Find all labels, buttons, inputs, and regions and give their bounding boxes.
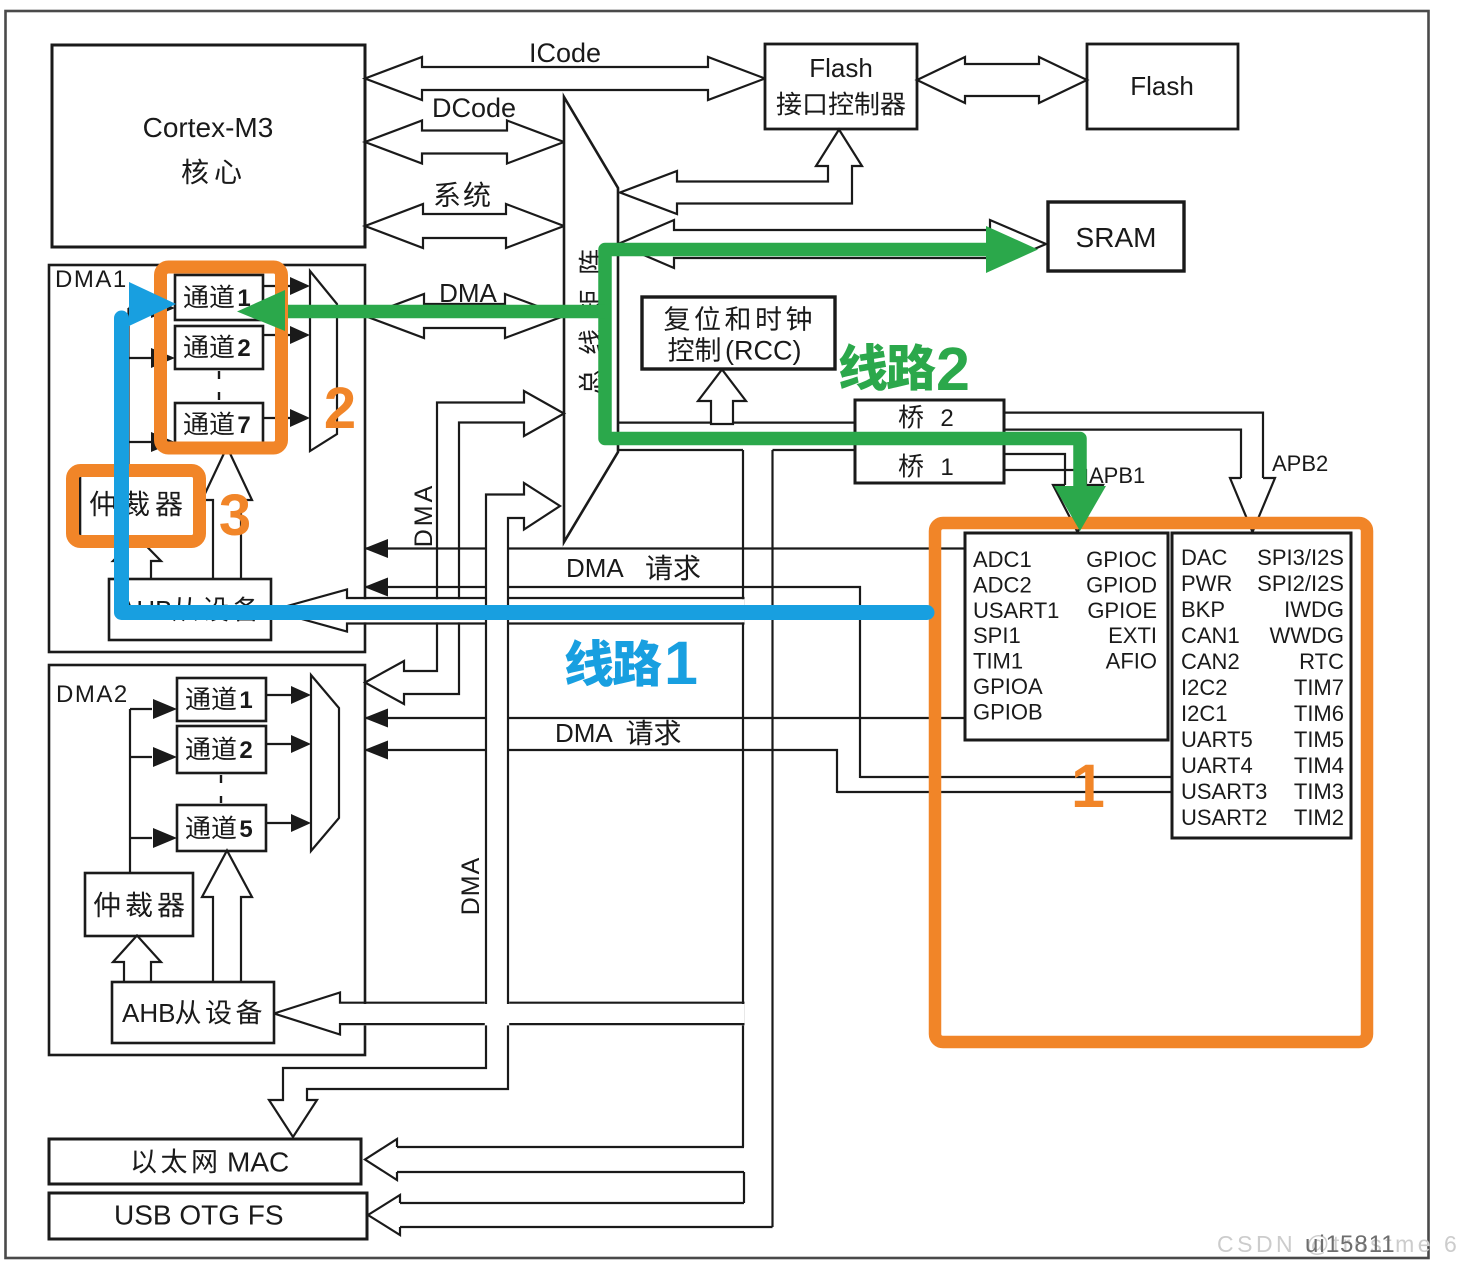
wire DMA bus arrow DMA1-busmatrix: [365, 294, 564, 338]
DMA2 block box: [49, 665, 365, 1055]
DMA1 arbiter box 仲裁器: [80, 472, 196, 537]
wire busmatrix to SRAM arrow: [618, 220, 1046, 268]
APB2 peripherals box: [1172, 533, 1351, 838]
label DMA vertical lower: [457, 857, 485, 916]
svg-text:TIM7: TIM7: [1294, 675, 1344, 700]
AHB channel to DMA2 AHB slave crossing shaft: [342, 1004, 744, 1025]
svg-text:GPIOC: GPIOC: [1086, 547, 1157, 572]
DMA request line 1 to DMA1: [365, 547, 965, 549]
SRAM box: [1048, 202, 1184, 271]
Ethernet MAC box: [49, 1139, 361, 1184]
blue label 线路1: [565, 639, 613, 687]
svg-text:DMA: DMA: [566, 553, 624, 583]
svg-text:SPI1: SPI1: [973, 623, 1021, 648]
wire system bus arrow: [365, 204, 564, 248]
wire bridge2 to APB2 lines: [1004, 412, 1264, 414]
svg-text:GPIOD: GPIOD: [1086, 572, 1157, 597]
bus matrix trapezoid: [564, 97, 618, 542]
label 系统: [435, 182, 459, 207]
svg-text:BKP: BKP: [1181, 597, 1225, 622]
svg-text:DMA: DMA: [439, 278, 497, 308]
svg-text:7: 7: [237, 412, 250, 439]
svg-text:Flash: Flash: [1130, 71, 1194, 101]
DMA2 master bus shaft to busmatrix: [365, 391, 564, 704]
svg-text:GPIOA: GPIOA: [973, 674, 1043, 699]
svg-text:MAC: MAC: [227, 1147, 289, 1178]
svg-text:I2C1: I2C1: [1181, 701, 1227, 726]
wire busmatrix to flash controller L-path: [620, 130, 862, 215]
DMA2 channel to mux arrows: [266, 694, 293, 696]
wire ICode bus arrow: [365, 57, 765, 100]
wire hollow arrow into Ethernet MAC: [397, 1146, 744, 1148]
green label 线路2: [839, 343, 887, 391]
svg-text:TIM3: TIM3: [1294, 779, 1344, 804]
orange highlight box 3 arbiter: [73, 471, 200, 542]
wire Flash controller to Flash arrow: [917, 57, 1087, 103]
svg-text:UART5: UART5: [1181, 727, 1253, 752]
DMA1 mux trapezoid: [310, 271, 337, 451]
svg-text:SRAM: SRAM: [1076, 222, 1157, 253]
svg-text:USART2: USART2: [1181, 805, 1267, 830]
svg-text:2: 2: [237, 335, 250, 362]
svg-text:DMA2: DMA2: [56, 681, 129, 708]
DMA2 channel feed lines and arrows: [129, 709, 131, 873]
wire AHB bus line to bridge1 (left of channel): [618, 449, 743, 451]
DMA2 arbiter box 仲裁器: [85, 873, 193, 936]
DMA1 AHB slave box: [109, 579, 271, 640]
svg-text:CAN2: CAN2: [1181, 649, 1240, 674]
svg-text:DMA: DMA: [410, 483, 438, 548]
Flash memory box: [1087, 44, 1238, 129]
svg-text:1: 1: [239, 687, 252, 714]
DMA2 arbiter up arrow: [113, 936, 161, 984]
svg-text:Cortex-M3: Cortex-M3: [143, 112, 274, 143]
svg-text:2: 2: [936, 335, 970, 403]
DMA2 mux trapezoid: [311, 675, 339, 851]
Cortex-M3 core box: [52, 45, 365, 247]
DMA2 channel2 box 通道2: [177, 726, 266, 773]
svg-text:DCode: DCode: [432, 93, 516, 123]
dashed line channels DMA2: [220, 775, 222, 803]
svg-text:2: 2: [940, 405, 953, 432]
svg-text:UART4: UART4: [1181, 753, 1253, 778]
svg-text:ADC1: ADC1: [973, 547, 1032, 572]
svg-text:PWR: PWR: [1181, 571, 1232, 596]
svg-text:TIM2: TIM2: [1294, 805, 1344, 830]
svg-text:1: 1: [940, 454, 953, 481]
svg-text:TIM5: TIM5: [1294, 727, 1344, 752]
svg-text:APB2: APB2: [1272, 451, 1328, 476]
svg-text:3: 3: [219, 483, 251, 548]
svg-text:1: 1: [664, 629, 698, 697]
svg-text:2: 2: [324, 376, 356, 441]
DMA2 channel5 up arrow from AHB: [202, 851, 252, 984]
svg-text:SPI3/I2S: SPI3/I2S: [1257, 545, 1344, 570]
svg-text:ui15811: ui15811: [1305, 1231, 1396, 1258]
svg-text:TIM1: TIM1: [973, 649, 1023, 674]
svg-text:GPIOE: GPIOE: [1087, 598, 1157, 623]
DMA1 arbiter up arrow: [113, 537, 161, 581]
svg-text:USART1: USART1: [973, 598, 1059, 623]
DMA2 channel1 box 通道1: [177, 678, 266, 721]
svg-text:2: 2: [239, 737, 252, 764]
DMA2 AHB slave box: [112, 982, 274, 1043]
svg-text:1: 1: [1071, 752, 1105, 820]
svg-text:DMA1: DMA1: [55, 266, 128, 293]
svg-text:TIM4: TIM4: [1294, 753, 1344, 778]
wire bridge1 to APB1 lines: [1004, 453, 1066, 455]
APB1 peripherals box: [965, 533, 1168, 740]
orange highlight box 2 channels: [161, 267, 282, 448]
svg-text:USART3: USART3: [1181, 779, 1267, 804]
DMA1 channel7 box 通道7: [175, 403, 263, 446]
DMA1 channel to mux arrows: [263, 285, 292, 287]
AHB system bus vertical channel: [742, 450, 744, 1147]
svg-text:SPI2/I2S: SPI2/I2S: [1257, 571, 1344, 596]
svg-text:DAC: DAC: [1181, 545, 1228, 570]
AHB bus shaft to busmatrix and ethernet: [269, 483, 560, 1137]
svg-text:WWDG: WWDG: [1269, 623, 1344, 648]
APB1 down arrowhead: [1053, 485, 1103, 532]
svg-text:Flash: Flash: [809, 53, 873, 83]
DMA1 channel feed lines and arrows: [127, 308, 129, 472]
svg-text:IWDG: IWDG: [1284, 597, 1344, 622]
green route line 2 线路2: [605, 250, 1080, 491]
svg-text:(RCC): (RCC): [725, 336, 801, 366]
svg-text:DMA: DMA: [555, 718, 613, 748]
svg-text:DMA: DMA: [457, 857, 485, 916]
dashed line channels: [218, 371, 220, 402]
svg-text:I2C2: I2C2: [1181, 675, 1227, 700]
wire AHB bus line to bridge2: [618, 422, 855, 424]
svg-text:ADC2: ADC2: [973, 572, 1032, 597]
wire AHB bus line to bridge1 (right of channel): [773, 449, 856, 451]
USB OTG FS box: [49, 1193, 367, 1239]
wire RCC up arrow: [698, 370, 746, 425]
bridge 2 and bridge 1 box: [855, 400, 1004, 483]
svg-text:RTC: RTC: [1299, 649, 1344, 674]
DMA1 block box: [49, 265, 365, 652]
label DMA vertical upper: [410, 483, 438, 548]
DMA1 channel1 box 通道1: [175, 275, 263, 320]
blue route line 1 线路1: [122, 318, 928, 613]
svg-text:AFIO: AFIO: [1106, 649, 1157, 674]
svg-text:CAN1: CAN1: [1181, 623, 1240, 648]
DMA request line 2 to DMA1 with corner: [365, 586, 861, 588]
svg-text:TIM6: TIM6: [1294, 701, 1344, 726]
APB2 down arrowhead: [1230, 478, 1275, 532]
DMA request line 4 to DMA2 with corner: [365, 749, 838, 751]
svg-text:APB1: APB1: [1089, 463, 1145, 488]
DMA request line 3 to DMA2: [365, 717, 965, 719]
svg-text:GPIOB: GPIOB: [973, 699, 1043, 724]
wire hollow arrow into USB OTG FS: [400, 1202, 744, 1204]
svg-text:EXTI: EXTI: [1108, 623, 1157, 648]
svg-text:5: 5: [239, 816, 252, 843]
svg-text:ICode: ICode: [529, 38, 601, 68]
Flash interface controller box: [765, 44, 917, 129]
svg-text:AHB: AHB: [122, 998, 175, 1028]
RCC box: [642, 297, 835, 369]
DMA1 channel2 box 通道2: [175, 326, 263, 369]
svg-text:USB OTG FS: USB OTG FS: [114, 1200, 284, 1231]
DMA2 channel5 box 通道5: [177, 805, 266, 851]
AHB channel to DMA1 AHB slave: [348, 599, 744, 622]
label bus matrix vertical: [579, 250, 603, 394]
wire DCode bus arrow: [365, 121, 564, 164]
orange highlight box 1 peripherals: [935, 523, 1367, 1042]
DMA1 channel7 up arrow from AHB: [202, 447, 252, 580]
